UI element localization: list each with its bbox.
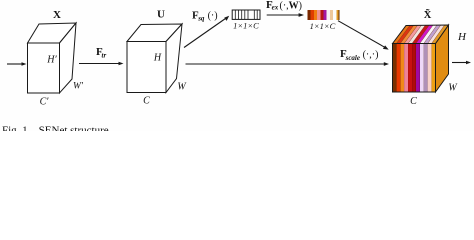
svg-text:scale: scale — [345, 54, 360, 62]
svg-text:X: X — [53, 9, 61, 21]
box Xtilde front face stripes — [393, 44, 436, 93]
arrow Fsq diagonal — [184, 16, 229, 48]
squeeze bar (white striped) — [232, 10, 260, 19]
svg-text:sq: sq — [197, 15, 205, 23]
svg-text:W′: W′ — [73, 82, 84, 92]
svg-text:(·): (·) — [208, 11, 218, 22]
box X top face — [28, 23, 77, 43]
svg-text:C: C — [143, 96, 150, 107]
box Xtilde right face — [436, 25, 449, 92]
svg-text:C: C — [410, 96, 417, 107]
box X front face — [28, 43, 60, 93]
svg-text:X̃: X̃ — [424, 9, 432, 22]
box X right face — [60, 23, 77, 93]
svg-text:1×1×C: 1×1×C — [310, 21, 336, 31]
arrow Fex — [267, 13, 304, 17]
excitation bar (colored) — [308, 10, 340, 20]
svg-text:H: H — [457, 31, 467, 43]
svg-text:H: H — [153, 53, 162, 64]
svg-text:ex: ex — [272, 4, 279, 12]
arrow Fscale — [186, 62, 390, 66]
arrow Ftr — [79, 62, 124, 66]
arrow bar to box diagonal — [338, 21, 389, 50]
svg-text:Fig. 1. SENet structure: Fig. 1. SENet structure — [2, 125, 109, 131]
svg-text:C′: C′ — [40, 97, 50, 108]
input arrow — [7, 62, 27, 66]
box U front face — [127, 42, 166, 93]
svg-text:(·,W): (·,W) — [280, 0, 303, 11]
output arrow — [452, 61, 471, 65]
svg-text:1×1×C: 1×1×C — [233, 20, 259, 30]
svg-text:tr: tr — [102, 51, 107, 59]
svg-text:U: U — [157, 9, 165, 21]
svg-text:(·,·): (·,·) — [363, 50, 379, 61]
box U right face — [166, 24, 182, 93]
box Xtilde top face stripes — [393, 25, 449, 44]
svg-text:H′: H′ — [46, 55, 57, 66]
box U top face — [127, 24, 182, 42]
